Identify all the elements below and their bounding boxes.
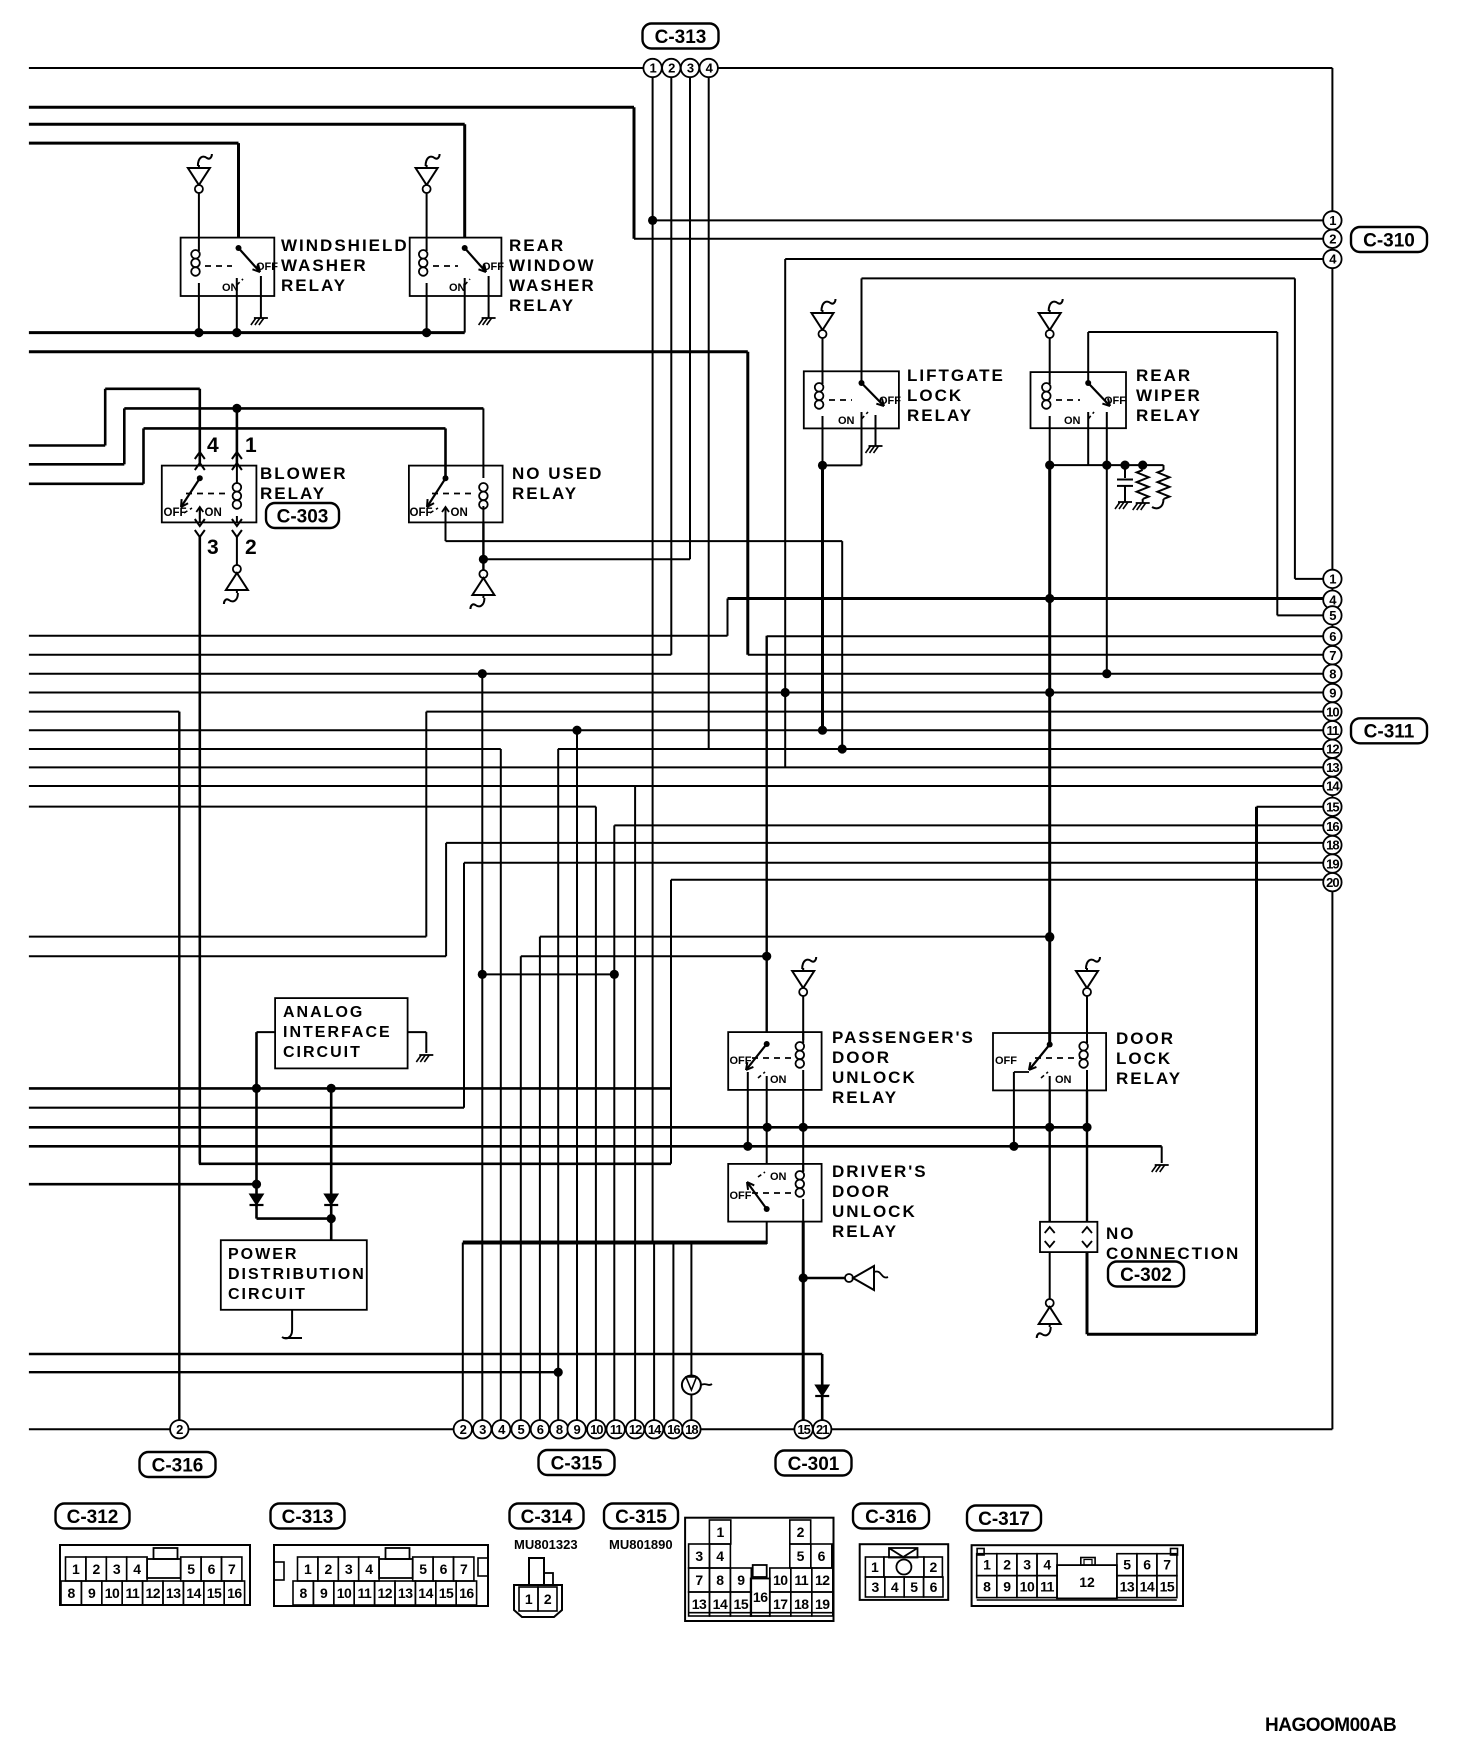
svg-text:14: 14 (1326, 779, 1340, 794)
svg-text:2: 2 (930, 1559, 938, 1575)
svg-text:12: 12 (146, 1585, 161, 1601)
svg-text:ON: ON (451, 507, 468, 519)
svg-text:11: 11 (1327, 723, 1340, 738)
svg-text:5: 5 (419, 1561, 427, 1577)
svg-text:RELAY: RELAY (260, 484, 326, 503)
svg-text:10: 10 (1326, 704, 1339, 719)
svg-text:6: 6 (930, 1579, 938, 1595)
svg-text:19: 19 (815, 1596, 830, 1612)
svg-text:4: 4 (1043, 1557, 1051, 1573)
svg-text:15: 15 (1160, 1579, 1175, 1595)
svg-text:ON: ON (1064, 415, 1081, 427)
svg-text:3: 3 (871, 1579, 879, 1595)
svg-text:19: 19 (1326, 856, 1339, 871)
svg-text:RELAY: RELAY (1116, 1069, 1182, 1088)
svg-text:15: 15 (207, 1585, 222, 1601)
svg-text:C-316: C-316 (865, 1507, 917, 1528)
svg-text:REAR: REAR (509, 236, 565, 255)
svg-text:LIFTGATE: LIFTGATE (907, 366, 1005, 385)
svg-text:8: 8 (1329, 666, 1336, 681)
svg-text:INTERFACE: INTERFACE (283, 1024, 392, 1041)
svg-text:RELAY: RELAY (509, 296, 575, 315)
svg-text:14: 14 (713, 1596, 728, 1612)
svg-text:12: 12 (1326, 741, 1339, 756)
svg-text:3: 3 (345, 1561, 353, 1577)
svg-text:3: 3 (113, 1561, 121, 1577)
svg-text:6: 6 (440, 1561, 448, 1577)
svg-text:12: 12 (815, 1572, 830, 1588)
svg-text:HAGOOM00AB: HAGOOM00AB (1265, 1715, 1396, 1736)
svg-text:OFF: OFF (879, 395, 901, 407)
svg-text:12: 12 (1079, 1574, 1095, 1590)
svg-text:LOCK: LOCK (907, 386, 963, 405)
svg-text:11: 11 (125, 1585, 140, 1601)
svg-text:2: 2 (92, 1561, 100, 1577)
svg-text:6: 6 (1329, 629, 1336, 644)
svg-text:2: 2 (1329, 231, 1336, 246)
svg-text:C-317: C-317 (978, 1509, 1030, 1530)
svg-text:16: 16 (227, 1585, 242, 1601)
svg-text:9: 9 (1003, 1579, 1011, 1595)
svg-text:3: 3 (479, 1422, 486, 1437)
svg-text:8: 8 (68, 1585, 76, 1601)
svg-text:1: 1 (1329, 213, 1336, 228)
svg-text:ON: ON (838, 415, 855, 427)
svg-text:DOOR: DOOR (832, 1182, 891, 1201)
svg-text:DOOR: DOOR (832, 1048, 891, 1067)
svg-text:OFF: OFF (482, 261, 504, 273)
svg-text:21: 21 (816, 1422, 829, 1437)
svg-text:15: 15 (734, 1596, 749, 1612)
svg-text:LOCK: LOCK (1116, 1049, 1172, 1068)
svg-text:BLOWER: BLOWER (260, 464, 348, 483)
svg-text:OFF: OFF (730, 1055, 752, 1067)
svg-text:ON: ON (449, 282, 466, 294)
svg-text:8: 8 (300, 1585, 308, 1601)
svg-text:CONNECTION: CONNECTION (1106, 1244, 1240, 1263)
svg-text:16: 16 (459, 1585, 474, 1601)
svg-text:7: 7 (460, 1561, 468, 1577)
svg-text:POWER: POWER (228, 1246, 298, 1263)
svg-text:C-302: C-302 (1120, 1265, 1172, 1286)
svg-text:14: 14 (418, 1585, 433, 1601)
svg-text:14: 14 (1140, 1579, 1155, 1595)
svg-text:5: 5 (187, 1561, 195, 1577)
svg-text:ON: ON (1055, 1074, 1072, 1086)
svg-text:C-303: C-303 (277, 506, 329, 527)
svg-text:10: 10 (773, 1572, 788, 1588)
svg-text:17: 17 (773, 1596, 788, 1612)
svg-text:12: 12 (629, 1422, 642, 1437)
svg-text:1: 1 (649, 61, 656, 76)
svg-text:ANALOG: ANALOG (283, 1004, 364, 1021)
svg-text:14: 14 (648, 1422, 662, 1437)
svg-text:20: 20 (1326, 875, 1339, 890)
svg-text:C-313: C-313 (655, 27, 707, 48)
svg-text:C-310: C-310 (1363, 230, 1415, 251)
svg-text:DOOR: DOOR (1116, 1029, 1175, 1048)
svg-text:14: 14 (186, 1585, 201, 1601)
svg-text:RELAY: RELAY (832, 1088, 898, 1107)
svg-text:9: 9 (320, 1585, 328, 1601)
svg-text:18: 18 (794, 1596, 809, 1612)
svg-text:15: 15 (797, 1422, 810, 1437)
svg-text:CIRCUIT: CIRCUIT (283, 1044, 362, 1061)
svg-text:1: 1 (245, 434, 257, 457)
svg-text:RELAY: RELAY (907, 406, 973, 425)
svg-text:OFF: OFF (1104, 395, 1126, 407)
svg-text:4: 4 (133, 1561, 141, 1577)
svg-text:2: 2 (460, 1422, 467, 1437)
svg-text:1: 1 (525, 1591, 533, 1607)
svg-text:OFF: OFF (995, 1055, 1017, 1067)
svg-text:7: 7 (695, 1572, 703, 1588)
svg-text:3: 3 (1023, 1557, 1031, 1573)
svg-text:2: 2 (176, 1422, 183, 1437)
svg-text:3: 3 (207, 536, 219, 559)
svg-text:13: 13 (1326, 760, 1339, 775)
svg-text:NO USED: NO USED (512, 464, 603, 483)
svg-text:13: 13 (166, 1585, 181, 1601)
svg-text:9: 9 (737, 1572, 745, 1588)
svg-text:2: 2 (245, 536, 257, 559)
svg-text:ON: ON (770, 1171, 787, 1183)
svg-text:C-314: C-314 (521, 1507, 573, 1528)
svg-text:4: 4 (716, 1548, 724, 1564)
svg-text:18: 18 (1326, 838, 1339, 853)
svg-text:UNLOCK: UNLOCK (832, 1202, 917, 1221)
svg-text:5: 5 (797, 1548, 805, 1564)
svg-text:10: 10 (105, 1585, 120, 1601)
svg-text:8: 8 (716, 1572, 724, 1588)
svg-text:16: 16 (667, 1422, 680, 1437)
svg-text:C-316: C-316 (152, 1455, 204, 1476)
svg-text:5: 5 (1123, 1557, 1131, 1573)
svg-text:7: 7 (1329, 648, 1336, 663)
svg-text:5: 5 (1329, 608, 1336, 623)
svg-text:10: 10 (337, 1585, 352, 1601)
svg-text:16: 16 (753, 1589, 768, 1605)
svg-text:4: 4 (365, 1561, 373, 1577)
svg-text:1: 1 (983, 1557, 991, 1573)
svg-text:C-311: C-311 (1364, 722, 1415, 743)
svg-text:8: 8 (556, 1422, 563, 1437)
svg-text:11: 11 (794, 1572, 809, 1588)
svg-text:13: 13 (398, 1585, 413, 1601)
svg-text:11: 11 (357, 1585, 372, 1601)
svg-text:6: 6 (208, 1561, 216, 1577)
svg-text:6: 6 (1143, 1557, 1151, 1573)
svg-text:WIPER: WIPER (1136, 386, 1202, 405)
svg-text:ON: ON (770, 1074, 787, 1086)
svg-text:OFF: OFF (256, 261, 278, 273)
svg-text:9: 9 (88, 1585, 96, 1601)
svg-text:10: 10 (590, 1422, 603, 1437)
svg-text:13: 13 (1120, 1579, 1135, 1595)
svg-text:10: 10 (1020, 1579, 1035, 1595)
svg-text:WINDOW: WINDOW (509, 256, 596, 275)
svg-text:OFF: OFF (164, 507, 187, 519)
svg-text:1: 1 (72, 1561, 80, 1577)
svg-text:DRIVER'S: DRIVER'S (832, 1162, 928, 1181)
svg-text:9: 9 (573, 1422, 580, 1437)
svg-text:2: 2 (544, 1591, 552, 1607)
svg-text:3: 3 (695, 1548, 703, 1564)
svg-text:WINDSHIELD: WINDSHIELD (281, 236, 409, 255)
svg-text:MU801890: MU801890 (609, 1537, 673, 1552)
svg-text:MU801323: MU801323 (514, 1537, 578, 1552)
svg-text:RELAY: RELAY (281, 276, 347, 295)
svg-text:2: 2 (324, 1561, 332, 1577)
svg-text:9: 9 (1329, 686, 1336, 701)
svg-text:REAR: REAR (1136, 366, 1192, 385)
svg-text:7: 7 (1163, 1557, 1171, 1573)
svg-text:15: 15 (439, 1585, 454, 1601)
svg-text:5: 5 (517, 1422, 524, 1437)
svg-text:C-301: C-301 (788, 1454, 840, 1475)
svg-text:C-312: C-312 (67, 1507, 119, 1528)
svg-text:15: 15 (1326, 799, 1339, 814)
svg-text:11: 11 (1040, 1579, 1055, 1595)
svg-text:8: 8 (983, 1579, 991, 1595)
svg-text:11: 11 (610, 1422, 623, 1437)
svg-text:RELAY: RELAY (1136, 406, 1202, 425)
svg-text:16: 16 (1326, 819, 1339, 834)
svg-text:WASHER: WASHER (281, 256, 368, 275)
svg-text:UNLOCK: UNLOCK (832, 1068, 917, 1087)
svg-text:C-313: C-313 (282, 1507, 334, 1528)
svg-text:OFF: OFF (730, 1190, 752, 1202)
svg-text:NO: NO (1106, 1224, 1136, 1243)
svg-text:2: 2 (797, 1524, 805, 1540)
svg-text:5: 5 (910, 1579, 918, 1595)
svg-text:4: 4 (207, 434, 219, 457)
svg-text:6: 6 (537, 1422, 544, 1437)
svg-text:12: 12 (378, 1585, 393, 1601)
svg-text:1: 1 (304, 1561, 312, 1577)
svg-text:C-315: C-315 (615, 1507, 667, 1528)
svg-text:ON: ON (205, 507, 222, 519)
svg-text:RELAY: RELAY (512, 484, 578, 503)
svg-text:OFF: OFF (410, 507, 433, 519)
svg-text:3: 3 (687, 61, 694, 76)
svg-text:2: 2 (668, 61, 675, 76)
svg-text:1: 1 (871, 1559, 879, 1575)
svg-text:1: 1 (1329, 572, 1336, 587)
svg-text:13: 13 (692, 1596, 707, 1612)
svg-text:WASHER: WASHER (509, 276, 596, 295)
svg-text:7: 7 (228, 1561, 236, 1577)
svg-text:RELAY: RELAY (832, 1222, 898, 1241)
svg-text:2: 2 (1003, 1557, 1011, 1573)
svg-text:CIRCUIT: CIRCUIT (228, 1286, 307, 1303)
svg-text:C-315: C-315 (551, 1453, 603, 1474)
svg-text:DISTRIBUTION: DISTRIBUTION (228, 1266, 366, 1283)
svg-text:6: 6 (818, 1548, 826, 1564)
svg-text:PASSENGER'S: PASSENGER'S (832, 1028, 975, 1047)
svg-text:1: 1 (716, 1524, 724, 1540)
svg-text:18: 18 (685, 1422, 698, 1437)
svg-text:4: 4 (891, 1579, 899, 1595)
